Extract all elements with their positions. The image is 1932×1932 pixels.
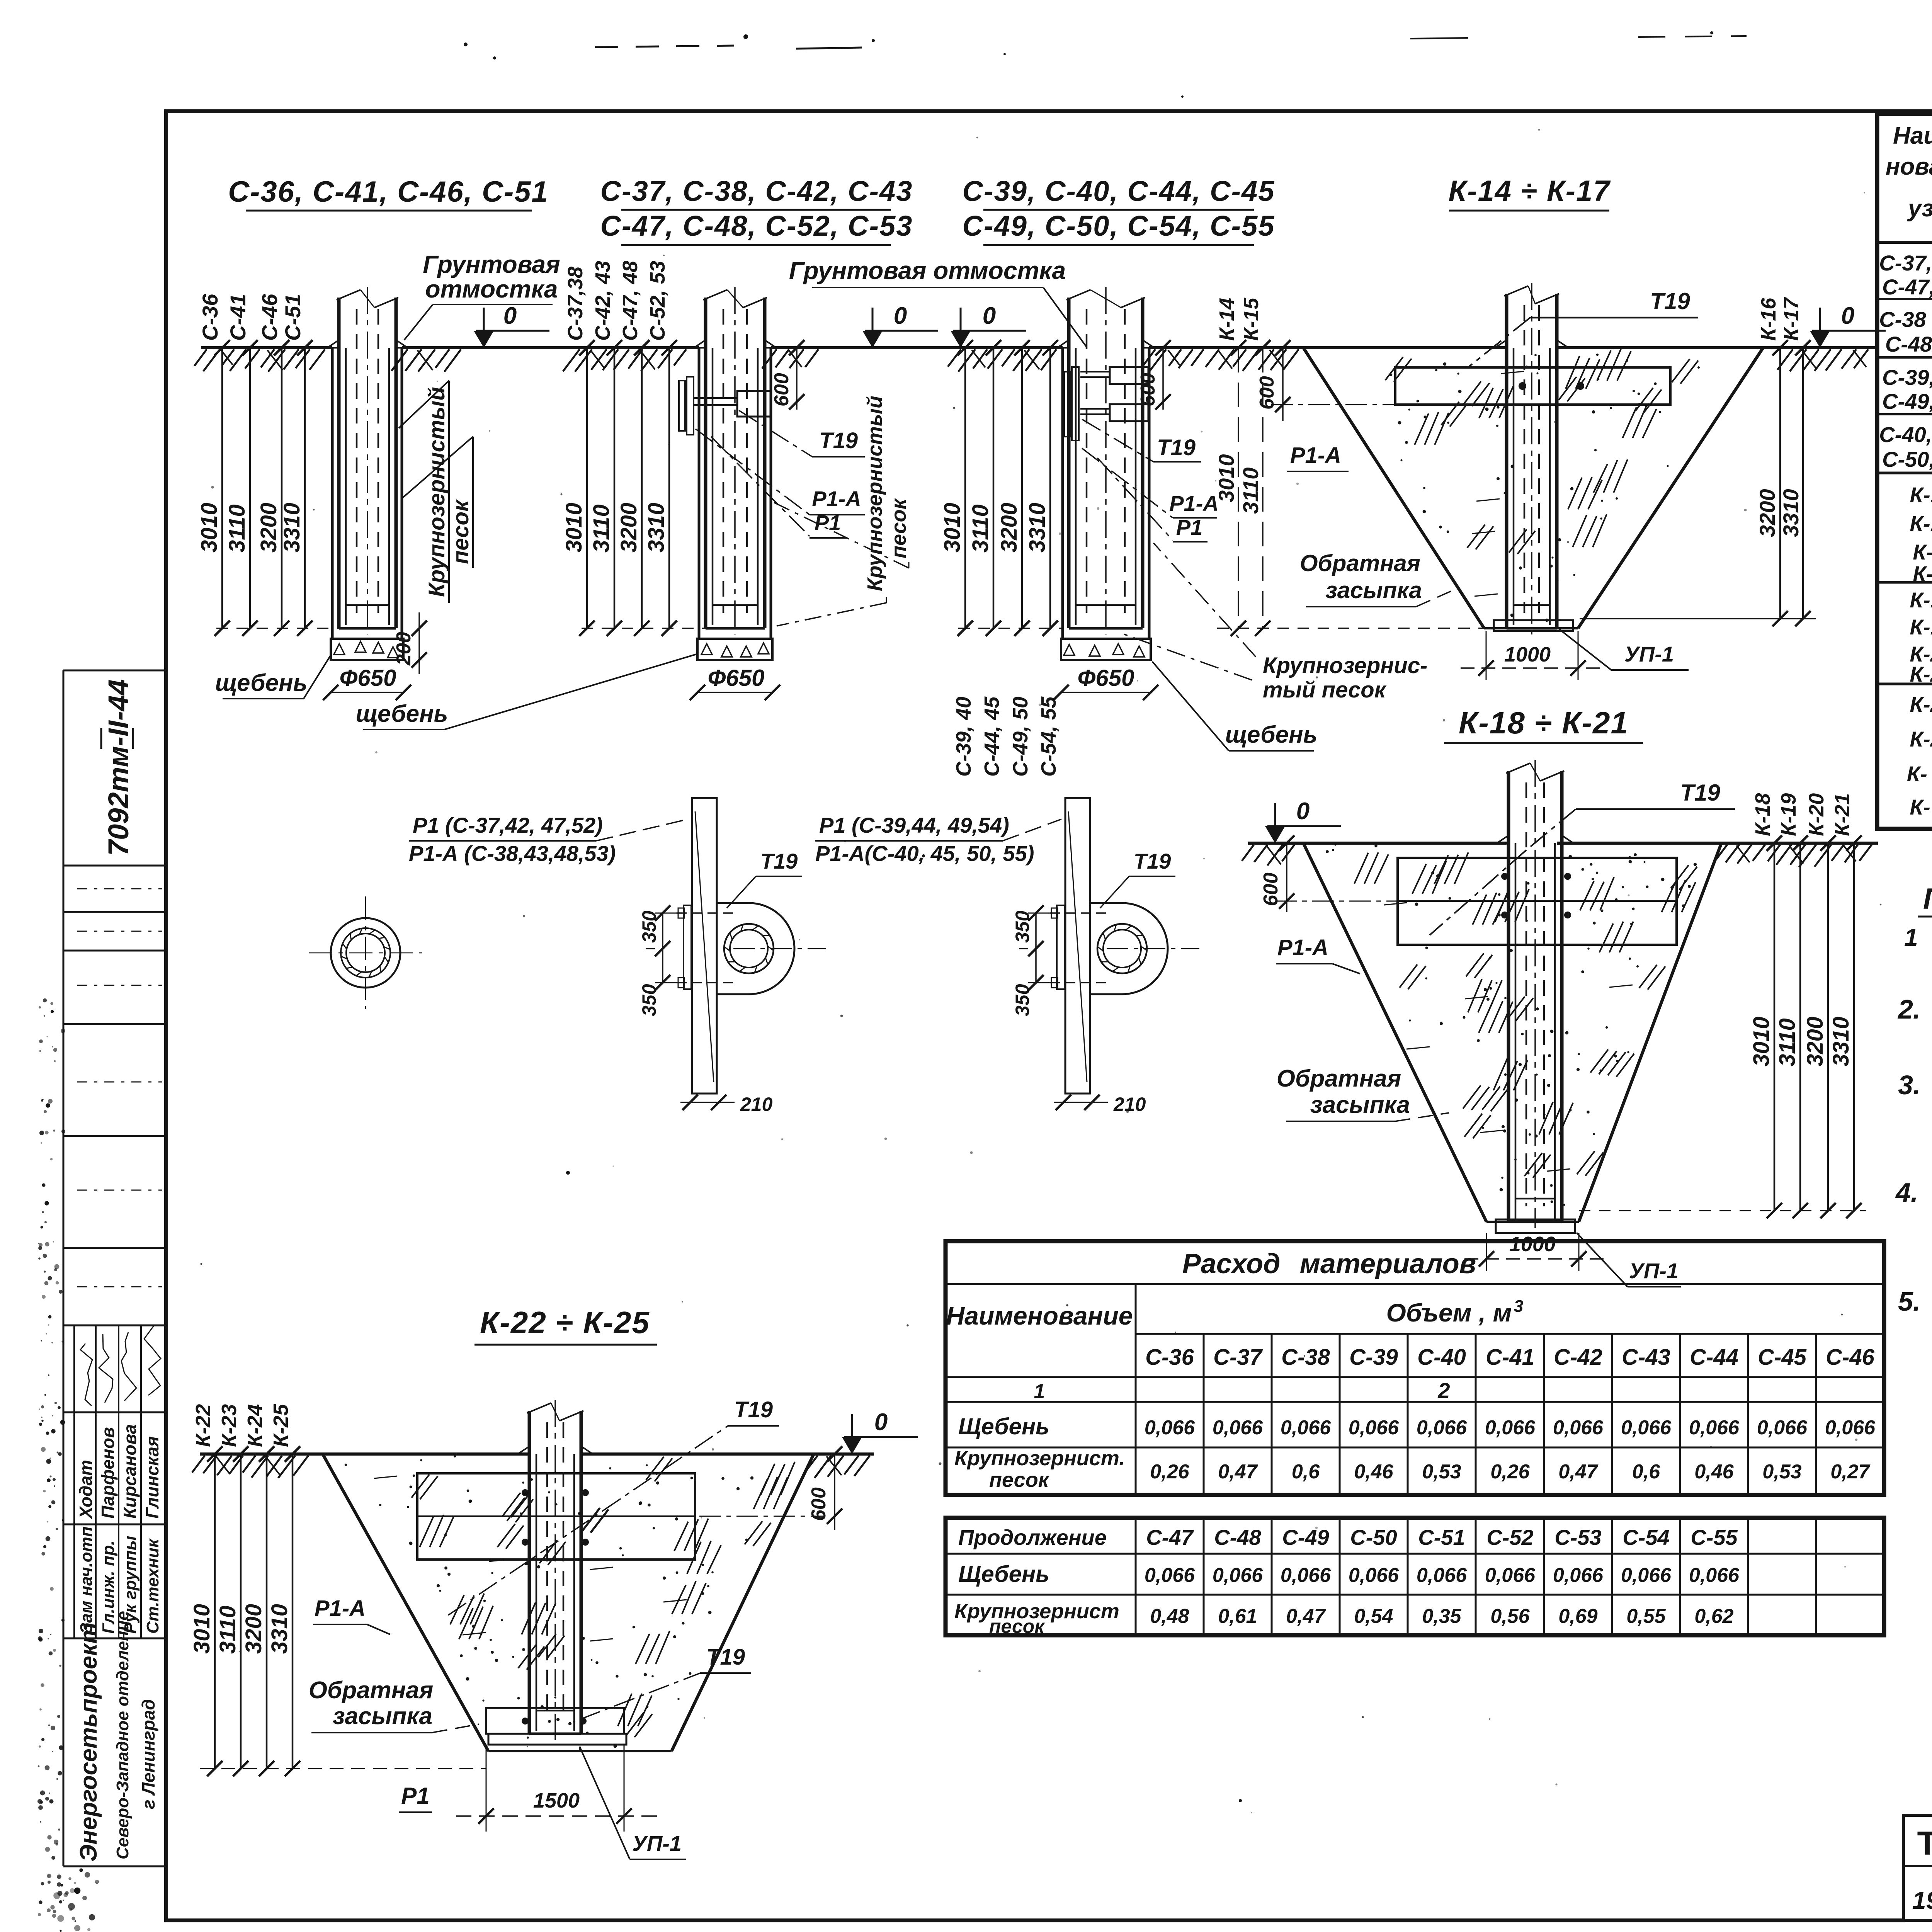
svg-text:0: 0: [894, 303, 907, 329]
svg-text:С-45: С-45: [1758, 1345, 1806, 1370]
dimension 1000 (node К-18): [1464, 1233, 1604, 1271]
svg-text:засыпка: засыпка: [1325, 577, 1422, 603]
svg-text:К-14: К-14: [1215, 298, 1238, 341]
excavation pit К-14 (trapezoid): [1303, 348, 1763, 628]
scan specks scattered: [464, 31, 1932, 1802]
svg-text:К-17: К-17: [1780, 297, 1803, 341]
svg-text:Р1-А (С-38,43,48,53): Р1-А (С-38,43,48,53): [409, 841, 616, 866]
svg-text:2.: 2.: [1897, 994, 1920, 1024]
label Р1 (node К-22): [399, 1783, 432, 1812]
level mark 0 (node С-36): [474, 303, 549, 348]
label Т19 lower (node К-22): [580, 1645, 751, 1719]
svg-text:С-48,С-53: С-48,С-53: [1885, 332, 1932, 356]
svg-text:3010: 3010: [1749, 1017, 1774, 1066]
svg-text:3200: 3200: [241, 1604, 266, 1654]
svg-text:Обратная: Обратная: [309, 1677, 434, 1704]
svg-text:К-14,: К-14,: [1910, 483, 1932, 507]
specification table frame: [1877, 114, 1932, 829]
svg-text:К-16: К-16: [1757, 298, 1780, 341]
svg-text:0,54: 0,54: [1354, 1605, 1393, 1628]
svg-text:0,6: 0,6: [1292, 1461, 1320, 1483]
svg-text:0,066: 0,066: [1417, 1564, 1467, 1587]
svg-text:0,69: 0,69: [1558, 1605, 1597, 1628]
materials table Расход материалов: [946, 1241, 1884, 1495]
organization Энергосетьпроект Северо-Западное отделение г Ленинград (rotated): [75, 1611, 158, 1862]
label Т19 (node К-14): [1468, 288, 1698, 367]
svg-text:Примечания :: Примечания :: [1923, 883, 1932, 915]
svg-text:0: 0: [1296, 798, 1310, 825]
label щебень (node С-39): [1152, 662, 1317, 751]
svg-text:0: 0: [503, 303, 517, 329]
svg-text:0,48: 0,48: [1150, 1605, 1189, 1628]
svg-text:2: 2: [1437, 1378, 1450, 1403]
svg-text:Крупнозернист.: Крупнозернист.: [954, 1447, 1125, 1470]
svg-text:Т19: Т19: [706, 1645, 745, 1670]
node title С-39, С-40, С-44, С-45 / С-49, С-50, С-54, С-55: [963, 175, 1275, 245]
svg-text:3200: 3200: [1755, 489, 1779, 537]
svg-text:С-39, 40: С-39, 40: [952, 697, 975, 777]
svg-text:7092тм-II-44: 7092тм-II-44: [102, 679, 134, 856]
svg-text:Р1-А: Р1-А: [315, 1596, 366, 1621]
svg-text:К-17: К-17: [1913, 561, 1932, 586]
svg-text:К-18,: К-18,: [1910, 588, 1932, 612]
svg-text:Крупнозернис-: Крупнозернис-: [1263, 653, 1427, 678]
backfill texture К-14: [1385, 349, 1700, 622]
svg-text:350: 350: [638, 984, 660, 1016]
label УП-1 (node К-18): [1577, 1233, 1681, 1287]
dimension Ф650 (node С-37): [690, 665, 780, 700]
level mark 0 (node К-18): [1265, 798, 1341, 843]
label щебень (node С-37): [356, 654, 698, 730]
svg-text:С-38 ,С-43,: С-38 ,С-43,: [1879, 307, 1932, 332]
svg-text:0,066: 0,066: [1145, 1564, 1195, 1587]
svg-text:600: 600: [1137, 373, 1159, 406]
svg-text:песок: песок: [448, 499, 473, 564]
label Т19 (node С-37): [739, 410, 865, 457]
scan streaks above frame: [595, 36, 1932, 49]
post С-36 section: [327, 287, 408, 634]
base slab УП-1 (node К-14): [1494, 620, 1573, 631]
svg-text:засыпка: засыпка: [333, 1703, 432, 1730]
svg-text:К-21: К-21: [1831, 793, 1854, 836]
level mark 0 (node К-14): [1810, 303, 1886, 348]
svg-text:щебень: щебень: [215, 670, 308, 696]
signature scrawls: [80, 1326, 161, 1406]
ground hatching: [194, 349, 1868, 372]
svg-text:0: 0: [874, 1409, 888, 1435]
svg-text:3.: 3.: [1898, 1070, 1920, 1100]
node title К-22 ÷ К-25: [474, 1305, 657, 1345]
svg-text:С-54, 55: С-54, 55: [1037, 696, 1060, 777]
svg-text:щебень: щебень: [1225, 721, 1318, 748]
svg-text:350: 350: [638, 910, 660, 943]
svg-text:К-23: К-23: [218, 1404, 241, 1447]
node title С-36, С-41, С-46, С-51: [228, 175, 549, 211]
svg-text:3200: 3200: [256, 503, 281, 553]
ground hatching (node К-22): [192, 1456, 870, 1478]
svg-text:С-40: С-40: [1417, 1345, 1466, 1370]
svg-text:С-41: С-41: [1486, 1345, 1534, 1370]
svg-text:К-15,: К-15,: [1910, 511, 1932, 536]
svg-text:0,35: 0,35: [1422, 1605, 1461, 1628]
label Грунтовая отмостка (node С-36): [404, 250, 560, 340]
svg-text:Обратная: Обратная: [1300, 550, 1420, 576]
svg-text:3310: 3310: [644, 503, 669, 553]
labels Р1-А / Р1 (node С-37): [696, 429, 865, 538]
gravel bed щебень (node С-39): [1061, 639, 1151, 660]
svg-text:Энергосетьпроект: Энергосетьпроект: [75, 1622, 102, 1862]
svg-text:0,066: 0,066: [1553, 1417, 1604, 1439]
svg-text:600: 600: [770, 373, 793, 406]
svg-text:3200: 3200: [616, 503, 641, 553]
svg-text:Р1: Р1: [401, 1783, 429, 1809]
svg-text:К- 25: К- 25: [1910, 795, 1932, 819]
svg-text:3010: 3010: [197, 503, 222, 553]
svg-text:0,066: 0,066: [1621, 1417, 1672, 1439]
svg-text:0,46: 0,46: [1694, 1461, 1734, 1483]
ground hatching (node К-18): [1242, 845, 1872, 867]
svg-text:С-43: С-43: [1622, 1345, 1670, 1370]
svg-text:3110: 3110: [224, 504, 250, 553]
excavation pit К-18 (trapezoid): [1303, 843, 1721, 1222]
label Т19 upper (node К-22): [448, 1397, 779, 1615]
label Обратная засыпка (node К-14): [1300, 550, 1451, 607]
svg-text:0: 0: [1841, 303, 1854, 329]
svg-text:С-40, С-45,: С-40, С-45,: [1879, 422, 1932, 447]
svg-text:Р1-А(С-40, 45, 50, 55): Р1-А(С-40, 45, 50, 55): [815, 841, 1034, 866]
svg-text:Наиме-: Наиме-: [1893, 122, 1932, 149]
post К-18 section: [1497, 760, 1573, 1228]
beams Р1-А double (node К-22): [417, 1473, 695, 1560]
svg-text:С-51: С-51: [281, 294, 305, 341]
svg-text:С-36: С-36: [1145, 1345, 1194, 1370]
anchor bracket with tie Т19 (node С-37): [679, 377, 771, 435]
svg-text:С-52, 53: С-52, 53: [646, 261, 669, 341]
svg-text:0,61: 0,61: [1218, 1605, 1257, 1628]
svg-text:К-15: К-15: [1240, 298, 1263, 341]
svg-text:0,066: 0,066: [1213, 1564, 1263, 1587]
svg-text:Расход материалов: Расход материалов: [1182, 1248, 1476, 1279]
svg-text:Т19: Т19: [819, 428, 858, 453]
svg-text:К-24: К-24: [243, 1404, 267, 1447]
beam Р1-А (node К-14): [1395, 367, 1670, 405]
level mark 0 (node С-37): [862, 303, 938, 348]
node title С-37, С-38, С-42, С-43 / С-47, С-48, С-52, С-53: [600, 175, 913, 245]
svg-text:1: 1: [1904, 923, 1918, 951]
svg-text:0,066: 0,066: [1281, 1564, 1331, 1587]
paper grain dots: [201, 129, 1932, 1813]
svg-text:засыпка: засыпка: [1310, 1092, 1410, 1118]
svg-text:Щебень: Щебень: [958, 1413, 1049, 1439]
svg-text:0,066: 0,066: [1349, 1417, 1399, 1439]
svg-text:С-44: С-44: [1690, 1345, 1738, 1370]
svg-text:С-51: С-51: [1418, 1525, 1465, 1549]
svg-text:Ф650: Ф650: [340, 665, 396, 691]
svg-text:350: 350: [1012, 910, 1033, 943]
svg-text:С-49, С-50, С-54, С-55: С-49, С-50, С-54, С-55: [963, 210, 1275, 242]
svg-text:0,53: 0,53: [1762, 1461, 1801, 1483]
svg-text:Р1 (С-37,42, 47,52): Р1 (С-37,42, 47,52): [413, 813, 603, 837]
svg-text:Р1-А: Р1-А: [1290, 443, 1341, 468]
svg-text:0,066: 0,066: [1281, 1417, 1331, 1439]
labels Р1-А / Р1 (node С-39): [1082, 448, 1219, 542]
svg-text:С-41: С-41: [226, 294, 250, 341]
svg-text:С-39,С-44,: С-39,С-44,: [1882, 365, 1932, 389]
label Крупнозернистый песок (node С-36): [399, 381, 473, 603]
stand leader labels К-18 К-19 К-20 К-21: [1751, 793, 1862, 851]
post С-37 section: [694, 287, 776, 634]
svg-text:Т19: Т19: [1650, 288, 1690, 314]
svg-text:0,26: 0,26: [1150, 1461, 1189, 1483]
svg-text:К-19,: К-19,: [1910, 615, 1932, 639]
svg-text:С-36: С-36: [198, 294, 222, 341]
label УП-1 (node К-22): [580, 1747, 686, 1859]
ground line: [201, 346, 1878, 349]
depth dimension lines 3010 3110 3200 3310 (node С-36): [197, 340, 339, 636]
stand leader labels К-22 К-23 К-24 К-25: [192, 1404, 300, 1462]
svg-text:К-22 ÷ К-25: К-22 ÷ К-25: [480, 1305, 650, 1340]
stand labels С-39,40 С-44,45 С-49,50 С-54,55 below (node С-39): [952, 621, 1060, 777]
svg-text:К-23,: К-23,: [1910, 727, 1932, 751]
svg-text:0,47: 0,47: [1218, 1461, 1258, 1483]
svg-text:Щебень: Щебень: [958, 1561, 1049, 1587]
drilled pit walls (node С-36): [332, 348, 402, 639]
svg-text:К-16: К-16: [1913, 540, 1932, 564]
backfill texture К-18: [1326, 844, 1697, 1206]
svg-text:С-39, С-40, С-44, С-45: С-39, С-40, С-44, С-45: [963, 175, 1275, 207]
base slab УП-1 (node К-18): [1496, 1219, 1575, 1233]
dimension 600 (node С-37): [770, 340, 804, 410]
dimension 1500 (node К-22): [456, 1745, 657, 1832]
depth dimension lines 3010 3110 3200 3310 (node С-37): [561, 340, 706, 636]
post К-22 section: [518, 1400, 593, 1740]
level mark 0 (node К-22): [842, 1409, 918, 1454]
label Крупнозернистый песок (node С-37): [774, 396, 910, 626]
svg-text:0,62: 0,62: [1694, 1605, 1733, 1628]
depth dimension lines 3010 3110 3200 3310 (node К-18): [1579, 835, 1866, 1218]
svg-text:Кирсанова: Кирсанова: [120, 1424, 140, 1519]
svg-text:Глинская: Глинская: [142, 1436, 162, 1519]
svg-text:210: 210: [1113, 1094, 1146, 1115]
svg-text:Парфенов: Парфенов: [98, 1427, 118, 1519]
svg-text:С-39: С-39: [1349, 1345, 1398, 1370]
svg-text:0,27: 0,27: [1830, 1461, 1870, 1483]
scan speckle left edge: [37, 998, 101, 1932]
dash marks in empty stamp cells: [77, 889, 162, 1287]
svg-text:0,066: 0,066: [1825, 1417, 1876, 1439]
dimension Ф650 (node С-36): [323, 665, 411, 700]
svg-text:3: 3: [1514, 1297, 1523, 1316]
notes Примечания: [1895, 883, 1932, 1383]
svg-text:песок: песок: [989, 1468, 1050, 1492]
dimension 200 gravel (node С-36): [393, 612, 427, 674]
svg-text:3310: 3310: [1779, 489, 1803, 537]
gravel bed щебень (node С-37): [697, 639, 772, 660]
materials table continuation Продолжение: [946, 1518, 1884, 1637]
svg-text:С-37, С-42,: С-37, С-42,: [1879, 251, 1932, 275]
svg-text:0,066: 0,066: [1485, 1417, 1536, 1439]
svg-text:3310: 3310: [279, 503, 304, 553]
svg-text:210: 210: [740, 1094, 773, 1115]
svg-text:Объем , м: Объем , м: [1386, 1298, 1512, 1327]
svg-text:Р1 (С-39,44, 49,54): Р1 (С-39,44, 49,54): [819, 813, 1009, 837]
svg-text:С-37, С-38, С-42, С-43: С-37, С-38, С-42, С-43: [600, 175, 913, 207]
stamp names Ходат Парфенов Кирсанова Глинская (rotated): [76, 1424, 162, 1520]
svg-text:нование: нование: [1886, 153, 1932, 180]
svg-text:К-25: К-25: [269, 1404, 293, 1447]
svg-text:С-49, 50: С-49, 50: [1009, 697, 1032, 777]
svg-text:С-46: С-46: [257, 294, 282, 341]
svg-text:песок: песок: [989, 1616, 1045, 1637]
label Т19 (node К-18): [1430, 780, 1735, 935]
svg-text:0,56: 0,56: [1490, 1605, 1530, 1628]
svg-text:Ст.техник: Ст.техник: [143, 1538, 162, 1634]
level mark 0 (node С-39): [951, 303, 1026, 348]
svg-text:Зам нач.отп: Зам нач.отп: [77, 1526, 96, 1634]
svg-text:С-47, С-52: С-47, С-52: [1882, 275, 1932, 299]
svg-text:350: 350: [1012, 984, 1033, 1016]
svg-text:узла: узла: [1907, 195, 1932, 222]
document number 7092тм-II-44 (rotated): [101, 679, 134, 856]
label Р1-А (node К-18): [1276, 935, 1360, 974]
svg-text:ТК: ТК: [1917, 1825, 1932, 1862]
svg-text:0,066: 0,066: [1349, 1564, 1399, 1587]
node title К-14 ÷ К-17: [1448, 175, 1611, 211]
svg-text:3310: 3310: [267, 1604, 292, 1654]
svg-text:0,066: 0,066: [1213, 1417, 1263, 1439]
drilled pit walls (node С-39): [1063, 348, 1149, 639]
svg-text:Т19: Т19: [760, 849, 798, 873]
svg-text:Ходат: Ходат: [76, 1460, 96, 1520]
excavation pit К-22 (trapezoid): [323, 1454, 814, 1751]
svg-text:Р1: Р1: [815, 510, 841, 535]
label Грунтовая отмостка (node С-39): [789, 257, 1087, 347]
svg-text:С-46: С-46: [1826, 1345, 1874, 1370]
svg-text:Р1-А: Р1-А: [1277, 935, 1328, 960]
svg-text:С-47, С-48, С-52, С-53: С-47, С-48, С-52, С-53: [600, 210, 913, 242]
svg-text:3200: 3200: [1803, 1017, 1828, 1066]
svg-text:С-50: С-50: [1350, 1525, 1397, 1549]
svg-text:3110: 3110: [1238, 468, 1263, 514]
svg-text:3200: 3200: [997, 503, 1022, 553]
svg-text:0,26: 0,26: [1490, 1461, 1530, 1483]
depth dimension lines 3010 3110 3200 3310 (node С-39): [940, 340, 1063, 636]
svg-text:С-48: С-48: [1214, 1525, 1261, 1549]
label Р1-А (node К-14): [1287, 443, 1349, 471]
svg-text:Ф650: Ф650: [1078, 665, 1134, 691]
label щебень (node С-36): [215, 654, 332, 699]
svg-text:УП-1: УП-1: [1629, 1259, 1679, 1283]
svg-text:0,47: 0,47: [1558, 1461, 1598, 1483]
svg-text:3110: 3110: [1775, 1018, 1800, 1066]
base beam Р1 and slab УП-1 (node К-22): [486, 1708, 626, 1745]
svg-text:Т19: Т19: [1680, 780, 1720, 806]
svg-text:0,46: 0,46: [1354, 1461, 1393, 1483]
svg-text:0,6: 0,6: [1632, 1461, 1660, 1483]
svg-text:Грунтовая отмостка: Грунтовая отмостка: [789, 257, 1066, 284]
svg-text:песок: песок: [887, 498, 910, 558]
svg-text:Т19: Т19: [734, 1397, 773, 1422]
svg-text:200: 200: [393, 632, 415, 666]
svg-text:К- 24,: К- 24,: [1907, 762, 1932, 786]
svg-text:Грунтовая: Грунтовая: [423, 250, 560, 278]
svg-text:УП-1: УП-1: [1624, 642, 1674, 666]
stand leader labels С-37,38 С-42,43 С-47,48 С-52,53: [564, 261, 677, 355]
svg-text:4.: 4.: [1895, 1177, 1918, 1207]
svg-text:К-14 ÷ К-17: К-14 ÷ К-17: [1448, 175, 1611, 207]
dimension 600 (node К-18): [1260, 835, 1398, 912]
svg-text:С-53: С-53: [1554, 1525, 1601, 1549]
svg-text:отмостка: отмостка: [425, 275, 558, 303]
svg-text:г Ленинград: г Ленинград: [138, 1699, 158, 1809]
svg-text:С-47: С-47: [1146, 1525, 1194, 1549]
svg-text:С-37,38: С-37,38: [564, 267, 587, 341]
svg-text:0: 0: [983, 303, 996, 329]
gravel bed щебень (node С-36): [331, 639, 403, 660]
svg-text:С-44, 45: С-44, 45: [980, 696, 1003, 777]
svg-text:К-18 ÷ К-21: К-18 ÷ К-21: [1459, 706, 1629, 740]
plan view: drilled pile circle: [309, 896, 422, 1009]
svg-text:Наименование: Наименование: [946, 1301, 1133, 1330]
post С-39 section: [1057, 287, 1154, 634]
svg-text:3310: 3310: [1025, 503, 1050, 553]
specification table headers: [1886, 120, 1932, 242]
svg-text:Т19: Т19: [1134, 849, 1171, 873]
svg-text:К-21,: К-21,: [1910, 662, 1932, 686]
svg-text:0,066: 0,066: [1757, 1417, 1808, 1439]
svg-text:Обратная: Обратная: [1277, 1065, 1401, 1092]
ground line (node К-18): [1248, 842, 1878, 845]
beams Р1-А double (node К-18): [1398, 858, 1677, 945]
svg-text:1000: 1000: [1509, 1233, 1556, 1256]
svg-text:3110: 3110: [589, 504, 614, 553]
svg-text:С-42: С-42: [1554, 1345, 1602, 1370]
svg-text:3010: 3010: [1214, 454, 1238, 502]
backfill texture К-22: [345, 1453, 795, 1750]
svg-text:К-20: К-20: [1805, 793, 1828, 836]
svg-text:С-49: С-49: [1282, 1525, 1329, 1549]
svg-text:С-49, С-54: С-49, С-54: [1882, 389, 1932, 413]
svg-text:УП-1: УП-1: [632, 1831, 682, 1855]
node title К-18 ÷ К-21: [1444, 706, 1643, 743]
stand leader labels К-14 К-15 К-16 К-17: [1215, 297, 1811, 355]
drilled pit walls (node С-37): [699, 348, 771, 639]
label Обратная засыпка (node К-22): [309, 1677, 479, 1733]
svg-text:Продолжение: Продолжение: [958, 1525, 1107, 1549]
svg-text:1500: 1500: [533, 1789, 580, 1812]
svg-text:3010: 3010: [561, 503, 587, 553]
svg-text:С-42, 43: С-42, 43: [591, 261, 614, 341]
svg-text:Р1-А: Р1-А: [1169, 491, 1219, 515]
post К-14 section: [1495, 283, 1568, 634]
svg-text:0,066: 0,066: [1689, 1564, 1740, 1587]
svg-text:0,066: 0,066: [1145, 1417, 1195, 1439]
svg-text:0,53: 0,53: [1422, 1461, 1461, 1483]
depth dimension lines 3010 3110 3200 3310 (node К-22): [189, 1446, 486, 1776]
stamp box ТК 1974: [1903, 1815, 1932, 1920]
plan view ригель Р1/Р1-А with Т19 (С-39 group): [815, 798, 1199, 1115]
svg-text:Ф650: Ф650: [708, 665, 765, 691]
svg-text:Т19: Т19: [1157, 435, 1196, 460]
svg-text:С-54: С-54: [1622, 1525, 1669, 1549]
svg-text:5.: 5.: [1898, 1286, 1920, 1316]
dimension 600 (node К-22): [699, 1446, 842, 1530]
anchor bracket two ties Т19 (node С-39): [1064, 367, 1148, 440]
svg-text:С-47, 48: С-47, 48: [619, 261, 642, 341]
left stamp column grid: [63, 670, 166, 1866]
depth dimensions 3010 3110 3200 3310 (node К-14): [1214, 340, 1816, 636]
label Обратная засыпка (node К-18): [1277, 1065, 1449, 1121]
